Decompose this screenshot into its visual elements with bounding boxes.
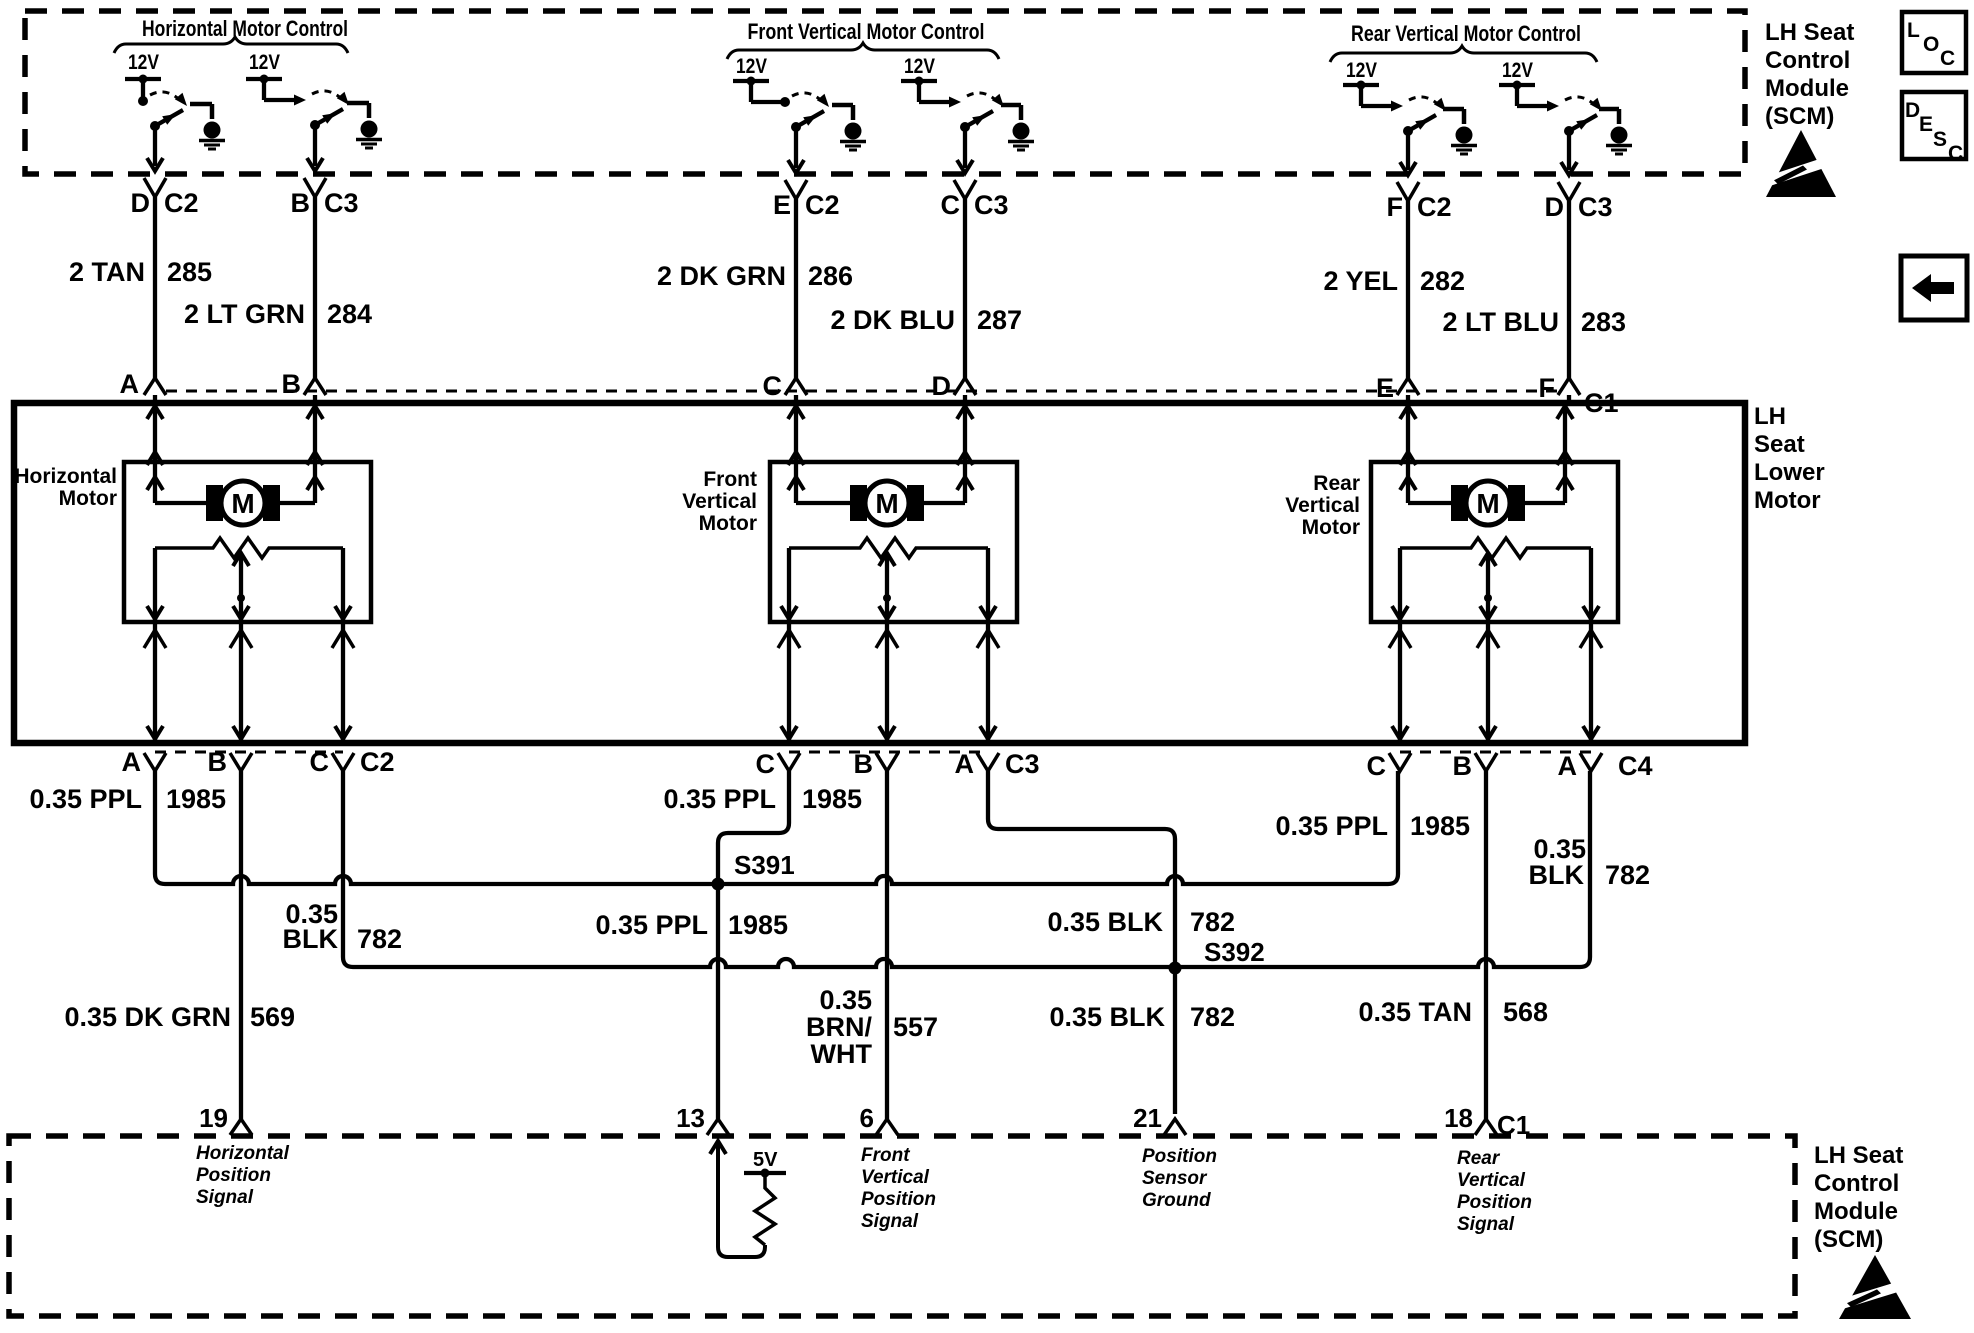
svg-text:12V: 12V: [904, 55, 935, 78]
label: LH Seat Control Module (SCM) top right: [1765, 19, 1854, 130]
wire label 0.35 BLK 782 (horizontal motor): [283, 899, 403, 954]
svg-text:13: 13: [676, 1103, 705, 1133]
wire feed left into front vertical seat motor: [788, 403, 851, 503]
connector C2 dashed line below motor box: [155, 751, 343, 754]
pin 18 of SCM connector C1: [1444, 1103, 1497, 1135]
svg-text:Vertical: Vertical: [1285, 494, 1360, 517]
wire 0.35 BLK 782 from front vertical motor pin A through S392: [988, 771, 1175, 1114]
svg-text:568: 568: [1503, 997, 1548, 1027]
svg-text:Seat: Seat: [1754, 431, 1805, 458]
svg-text:287: 287: [977, 305, 1022, 335]
12V power feed for SW2 horizontal motor control right: [246, 75, 282, 101]
svg-text:0.35 PPL: 0.35 PPL: [663, 784, 776, 814]
pin 13 of SCM connector C1: [676, 1103, 729, 1135]
potentiometer wiper (front vertical seat motor): [879, 553, 895, 622]
svg-text:C2: C2: [1417, 192, 1452, 222]
12V supply label switch 3: [736, 55, 767, 78]
svg-text:Position: Position: [861, 1189, 936, 1210]
ESD sensitive device icon (bottom): [1834, 1255, 1911, 1319]
svg-text:S: S: [1933, 128, 1947, 151]
svg-text:Position: Position: [1457, 1192, 1532, 1213]
wire wiper output of horizontal seat motor: [230, 622, 252, 741]
potentiometer position sensor (rear vertical seat motor): [1392, 538, 1599, 622]
12V supply label switch 6: [1502, 59, 1533, 82]
label: LH Seat Lower Motor: [1754, 403, 1825, 514]
svg-text:6: 6: [860, 1103, 874, 1133]
wire label 0.35 PPL 1985 (front vertical motor): [663, 784, 862, 814]
pin 6 of SCM connector C1: [860, 1103, 898, 1135]
svg-text:A: A: [122, 747, 142, 777]
svg-text:Sensor: Sensor: [1142, 1168, 1208, 1189]
12V power feed for SW6 rear vertical motor control right: [1499, 81, 1535, 107]
svg-text:Vertical: Vertical: [1457, 1170, 1526, 1191]
motor M (horizontal seat motor): [206, 481, 280, 525]
LOC hotlink button: [1902, 12, 1966, 73]
pin A below motor box at x=988: [955, 749, 1000, 779]
wire label 2 TAN 285: [69, 257, 212, 287]
svg-text:E: E: [1376, 373, 1394, 403]
svg-text:BLK: BLK: [1529, 860, 1585, 890]
svg-text:12V: 12V: [1502, 59, 1533, 82]
svg-text:1985: 1985: [728, 910, 788, 940]
svg-text:782: 782: [1605, 860, 1650, 890]
wire feed left into rear vertical seat motor: [1400, 403, 1452, 503]
splice S391: [712, 878, 725, 891]
rear vertical seat motor assembly box: [1371, 462, 1618, 622]
svg-text:Rear: Rear: [1313, 472, 1360, 495]
wire wiper output of front vertical seat motor: [876, 622, 898, 741]
section title: Front Vertical Motor Control with brace: [727, 19, 999, 59]
connector C3 dashed line below motor box: [789, 751, 988, 754]
pin D (motor connector): [932, 371, 952, 401]
wire 0.35 BRN/WHT 557 front vertical position signal to pin 6: [885, 771, 889, 1119]
svg-text:0.35: 0.35: [819, 985, 872, 1015]
svg-text:285: 285: [167, 257, 212, 287]
wire 0.35 PPL 1985 from front vertical motor pin C to splice S391: [718, 771, 789, 884]
svg-text:S392: S392: [1204, 937, 1265, 967]
svg-text:LH Seat: LH Seat: [1814, 1142, 1903, 1169]
svg-text:Motor: Motor: [59, 487, 117, 510]
svg-text:C: C: [1367, 751, 1387, 781]
svg-text:A: A: [1558, 751, 1578, 781]
back arrow button: [1901, 256, 1967, 320]
wire 0.35 BLK 782 from horizontal motor pin C to splice S392: [343, 771, 1175, 967]
ground symbol for SW1 horizontal motor control left: [190, 104, 225, 149]
svg-text:283: 283: [1581, 307, 1626, 337]
svg-text:A: A: [955, 749, 975, 779]
svg-text:F: F: [1539, 373, 1556, 403]
label: Front Vertical Motor: [682, 468, 757, 535]
pin 21 of SCM connector C1: [1133, 1103, 1186, 1135]
wire label 0.35 PPL 1985 (S391 feed): [595, 910, 788, 940]
pin E (motor connector): [1376, 373, 1394, 403]
svg-text:0.35 DK GRN: 0.35 DK GRN: [64, 1002, 231, 1032]
ground symbol for SW5 rear vertical motor control left: [1443, 109, 1477, 154]
potentiometer wiper (horizontal seat motor): [233, 553, 249, 622]
label: Front Vertical Position Signal: [861, 1145, 936, 1232]
ground symbol for SW6 rear vertical motor control right: [1599, 109, 1632, 154]
12V power feed for SW5 rear vertical motor control left: [1343, 81, 1379, 107]
wire label 0.35 PPL 1985 (horizontal motor): [29, 784, 226, 814]
svg-text:Signal: Signal: [861, 1211, 919, 1232]
svg-text:C2: C2: [360, 747, 395, 777]
wire sensor low output of front vertical seat motor: [977, 622, 999, 741]
12V supply label switch 2: [249, 51, 280, 74]
svg-text:Position: Position: [196, 1165, 271, 1186]
svg-text:C2: C2: [805, 190, 840, 220]
svg-text:19: 19: [199, 1103, 228, 1133]
switch SW5 rear vertical motor control left: [1361, 97, 1446, 136]
svg-text:B: B: [854, 749, 874, 779]
wire sensor low output of horizontal seat motor: [332, 622, 354, 741]
ground symbol for SW4 front vertical motor control right: [1001, 105, 1034, 150]
svg-text:C3: C3: [1005, 749, 1040, 779]
pin C below motor box at x=789: [756, 749, 801, 779]
wire label 0.35 BLK 782 (rear vertical motor): [1529, 834, 1651, 890]
switch SW4 front vertical motor control right: [919, 93, 1004, 132]
label: Horizontal Position Signal: [196, 1143, 290, 1208]
wire label 0.35 TAN 568: [1358, 997, 1548, 1027]
wire label 2 YEL 282: [1323, 266, 1465, 296]
svg-text:12V: 12V: [1346, 59, 1377, 82]
switch SW1 horizontal motor control left: [138, 92, 187, 131]
12V supply label switch 1: [128, 51, 159, 74]
svg-text:C2: C2: [164, 188, 199, 218]
svg-text:Module: Module: [1814, 1198, 1898, 1225]
svg-text:Horizontal: Horizontal: [196, 1143, 290, 1164]
svg-text:2 LT GRN: 2 LT GRN: [184, 299, 305, 329]
wire B-C3 from switch to seat motor connector: [304, 127, 326, 403]
switch SW2 horizontal motor control right: [264, 91, 349, 130]
section title: Rear Vertical Motor Control with brace: [1330, 21, 1597, 62]
pin B below motor box at x=1486: [1453, 751, 1498, 781]
pin D of connector C3 (SCM output): [1545, 192, 1613, 222]
pin B (motor connector): [282, 369, 302, 399]
svg-text:Horizontal: Horizontal: [14, 465, 117, 488]
connector label C1: [1584, 388, 1619, 418]
wire sensor high output of horizontal seat motor: [144, 622, 166, 741]
wire sensor high output of rear vertical seat motor: [1389, 622, 1411, 741]
svg-text:Signal: Signal: [1457, 1214, 1515, 1235]
svg-text:B: B: [282, 369, 302, 399]
12V power feed for SW1 horizontal motor control left: [125, 75, 161, 101]
switch SW6 rear vertical motor control right: [1517, 97, 1602, 136]
svg-text:0.35 BLK: 0.35 BLK: [1047, 907, 1163, 937]
section title: Horizontal Motor Control with brace: [114, 16, 348, 53]
svg-text:0.35 PPL: 0.35 PPL: [1275, 811, 1388, 841]
svg-text:C: C: [1940, 47, 1955, 70]
motor M (front vertical seat motor): [850, 481, 924, 525]
svg-text:Ground: Ground: [1142, 1190, 1211, 1211]
ground symbol for SW3 front vertical motor control left: [832, 105, 866, 150]
wire wiper output of rear vertical seat motor: [1477, 622, 1499, 741]
wire label 0.35 PPL 1985 (rear vertical motor): [1275, 811, 1470, 841]
wire sensor high output of front vertical seat motor: [778, 622, 800, 741]
pin C below motor box at x=1400: [1367, 751, 1412, 781]
potentiometer position sensor (front vertical seat motor): [781, 538, 996, 622]
wire feed left into horizontal seat motor: [147, 403, 207, 503]
pin E of connector C2 (SCM output): [773, 190, 840, 220]
svg-text:BLK: BLK: [283, 924, 339, 954]
svg-text:5V: 5V: [753, 1149, 778, 1171]
svg-text:557: 557: [893, 1012, 938, 1042]
svg-text:(SCM): (SCM): [1814, 1226, 1883, 1253]
front vertical seat motor assembly box: [770, 462, 1017, 622]
svg-text:BRN/: BRN/: [806, 1012, 872, 1042]
pin A below motor box at x=155: [122, 747, 167, 777]
svg-text:12V: 12V: [249, 51, 280, 74]
svg-text:Vertical: Vertical: [861, 1167, 930, 1188]
svg-text:Control: Control: [1814, 1170, 1899, 1197]
svg-text:569: 569: [250, 1002, 295, 1032]
pin 19 of SCM connector C1: [199, 1103, 252, 1135]
wire D-C3 from switch to seat motor connector: [1558, 131, 1580, 403]
svg-text:1985: 1985: [802, 784, 862, 814]
svg-text:Control: Control: [1765, 47, 1850, 74]
svg-text:18: 18: [1444, 1103, 1473, 1133]
wire label 0.35 BLK 782 (S392 to pin 21): [1049, 1002, 1235, 1032]
connector label C1 (bottom): [1497, 1110, 1530, 1140]
svg-text:M: M: [875, 488, 898, 519]
svg-text:0.35 PPL: 0.35 PPL: [29, 784, 142, 814]
svg-text:Rear: Rear: [1457, 1148, 1501, 1169]
wire feed right into rear vertical seat motor: [1524, 403, 1573, 503]
svg-text:0.35 BLK: 0.35 BLK: [1049, 1002, 1165, 1032]
potentiometer wiper (rear vertical seat motor): [1480, 553, 1496, 622]
svg-text:C: C: [941, 190, 961, 220]
svg-text:LH: LH: [1754, 403, 1786, 430]
wire label 0.35 DK GRN 569: [64, 1002, 295, 1032]
label: Position Sensor Ground: [1142, 1146, 1217, 1211]
svg-text:O: O: [1923, 33, 1939, 56]
svg-text:1985: 1985: [1410, 811, 1470, 841]
wire label 0.35 BRN/WHT 557: [806, 985, 938, 1069]
svg-text:782: 782: [1190, 1002, 1235, 1032]
svg-text:L: L: [1907, 19, 1920, 42]
svg-text:Front: Front: [703, 468, 757, 491]
svg-text:C3: C3: [1578, 192, 1613, 222]
wire 0.35 PPL 1985 from rear vertical motor pin C to splice S391: [718, 771, 1398, 884]
svg-text:Motor: Motor: [1302, 516, 1360, 539]
svg-text:782: 782: [357, 924, 402, 954]
svg-text:B: B: [208, 747, 228, 777]
5V reference and pull-up resistor inside SCM: [710, 1141, 786, 1257]
svg-text:D: D: [1545, 192, 1565, 222]
ESD sensitive device icon (top): [1761, 130, 1836, 197]
wire E-C2 from switch to seat motor connector: [785, 129, 807, 403]
svg-text:C: C: [763, 371, 783, 401]
svg-text:Rear Vertical Motor Control: Rear Vertical Motor Control: [1351, 21, 1581, 46]
label: Horizontal Motor: [14, 465, 117, 510]
pin C (motor connector): [763, 371, 783, 401]
label: Rear Vertical Position Signal: [1457, 1148, 1532, 1235]
svg-text:E: E: [1919, 113, 1933, 136]
svg-text:M: M: [1476, 488, 1499, 519]
svg-text:1985: 1985: [166, 784, 226, 814]
svg-text:C4: C4: [1618, 751, 1653, 781]
label: Rear Vertical Motor: [1285, 472, 1360, 539]
pin F (motor connector): [1539, 373, 1556, 403]
pin A below motor box at x=1591: [1558, 751, 1603, 781]
wire label 2 LT BLU 283: [1443, 307, 1627, 337]
wire sensor low output of rear vertical seat motor: [1580, 622, 1602, 741]
wire label 0.35 BLK 782 (front vertical motor, above S392): [1047, 907, 1235, 937]
12V supply label switch 5: [1346, 59, 1377, 82]
12V power feed for SW3 front vertical motor control left: [733, 77, 769, 103]
connector label C3: [1005, 749, 1040, 779]
svg-text:D: D: [1905, 99, 1920, 122]
svg-text:Lower: Lower: [1754, 459, 1825, 486]
wire label 2 DK GRN 286: [657, 261, 853, 291]
ground symbol for SW2 horizontal motor control right: [347, 103, 382, 148]
svg-text:WHT: WHT: [811, 1039, 873, 1069]
svg-text:0.35 PPL: 0.35 PPL: [595, 910, 708, 940]
pin A (motor connector): [120, 369, 140, 399]
svg-text:21: 21: [1133, 1103, 1162, 1133]
svg-text:0.35 TAN: 0.35 TAN: [1358, 997, 1472, 1027]
svg-text:B: B: [291, 188, 311, 218]
svg-text:D: D: [131, 188, 151, 218]
svg-text:C3: C3: [974, 190, 1009, 220]
horizontal seat motor assembly box: [124, 462, 371, 622]
svg-text:Front: Front: [861, 1145, 910, 1166]
svg-text:2 DK GRN: 2 DK GRN: [657, 261, 786, 291]
svg-text:C1: C1: [1497, 1110, 1530, 1140]
svg-text:C3: C3: [324, 188, 359, 218]
connector C1 dashed line above motor box: [166, 390, 1558, 393]
wire label 2 DK BLU 287: [830, 305, 1022, 335]
LH Seat Lower Motor outer box: [14, 403, 1745, 743]
wire D-C2 from switch to seat motor connector: [144, 127, 166, 403]
svg-text:286: 286: [808, 261, 853, 291]
svg-text:S391: S391: [734, 850, 795, 880]
svg-text:LH Seat: LH Seat: [1765, 19, 1854, 46]
pin B below motor box at x=241: [208, 747, 253, 777]
svg-text:12V: 12V: [736, 55, 767, 78]
svg-text:C: C: [1948, 142, 1963, 165]
svg-text:Horizontal Motor Control: Horizontal Motor Control: [142, 16, 348, 41]
svg-text:2 LT BLU: 2 LT BLU: [1443, 307, 1560, 337]
connector label C2: [360, 747, 395, 777]
wire 0.35 PPL 1985 from horizontal motor pin A to splice S391: [155, 771, 718, 884]
svg-text:Motor: Motor: [699, 512, 757, 535]
connector C4 dashed line below motor box: [1400, 751, 1591, 754]
svg-text:Position: Position: [1142, 1146, 1217, 1167]
wire feed right into horizontal seat motor: [279, 403, 323, 503]
pin B below motor box at x=887: [854, 749, 899, 779]
svg-text:Vertical: Vertical: [682, 490, 757, 513]
svg-text:Motor: Motor: [1754, 487, 1821, 514]
wire C-C3 from switch to seat motor connector: [954, 129, 976, 403]
pin F of connector C2 (SCM output): [1387, 192, 1452, 222]
pin C of connector C3 (SCM output): [941, 190, 1009, 220]
svg-text:B: B: [1453, 751, 1473, 781]
svg-text:(SCM): (SCM): [1765, 103, 1834, 130]
wire label 2 LT GRN 284: [184, 299, 372, 329]
svg-text:E: E: [773, 190, 791, 220]
LH Seat Control Module (SCM) lower dashed box: [9, 1136, 1795, 1316]
svg-text:C1: C1: [1584, 388, 1619, 418]
pin D of connector C2 (SCM output): [131, 188, 199, 218]
DESC hotlink button: [1902, 92, 1966, 165]
svg-text:2 TAN: 2 TAN: [69, 257, 145, 287]
svg-text:2 DK BLU: 2 DK BLU: [830, 305, 955, 335]
label S392: [1204, 937, 1265, 967]
12V power feed for SW4 front vertical motor control right: [901, 77, 937, 103]
svg-text:Module: Module: [1765, 75, 1849, 102]
svg-text:782: 782: [1190, 907, 1235, 937]
svg-text:Front Vertical Motor Control: Front Vertical Motor Control: [748, 19, 985, 44]
label S391: [734, 850, 795, 880]
svg-text:Signal: Signal: [196, 1187, 254, 1208]
wire 0.35 TAN 568 rear vertical position signal to pin 18: [1484, 771, 1488, 1119]
connector label C4: [1618, 751, 1653, 781]
svg-text:A: A: [120, 369, 140, 399]
switch SW3 front vertical motor control left: [751, 93, 829, 132]
label: LH Seat Control Module (SCM) bottom right: [1814, 1142, 1903, 1253]
svg-text:D: D: [932, 371, 952, 401]
svg-text:C: C: [310, 747, 330, 777]
wire 0.35 DK GRN 569 horizontal position signal to pin 19: [239, 771, 243, 1119]
LH Seat Control Module (SCM) upper dashed box: [25, 11, 1745, 174]
wire 0.35 PPL 1985 from S391 down to SCM pin 13: [716, 884, 720, 1119]
wire 0.35 BLK 782 from rear vertical motor pin A to splice S392: [1175, 771, 1590, 967]
svg-text:2 YEL: 2 YEL: [1323, 266, 1398, 296]
svg-text:F: F: [1387, 192, 1404, 222]
wire F-C2 from switch to seat motor connector: [1397, 131, 1419, 403]
svg-text:12V: 12V: [128, 51, 159, 74]
svg-text:C: C: [756, 749, 776, 779]
motor M (rear vertical seat motor): [1451, 481, 1525, 525]
svg-text:282: 282: [1420, 266, 1465, 296]
potentiometer position sensor (horizontal seat motor): [147, 538, 351, 622]
splice S392: [1169, 962, 1182, 975]
wire feed right into front vertical seat motor: [923, 403, 973, 503]
pin B of connector C3 (SCM output): [291, 188, 359, 218]
svg-text:284: 284: [327, 299, 372, 329]
pin C below motor box at x=343: [310, 747, 355, 777]
svg-text:M: M: [231, 488, 254, 519]
12V supply label switch 4: [904, 55, 935, 78]
